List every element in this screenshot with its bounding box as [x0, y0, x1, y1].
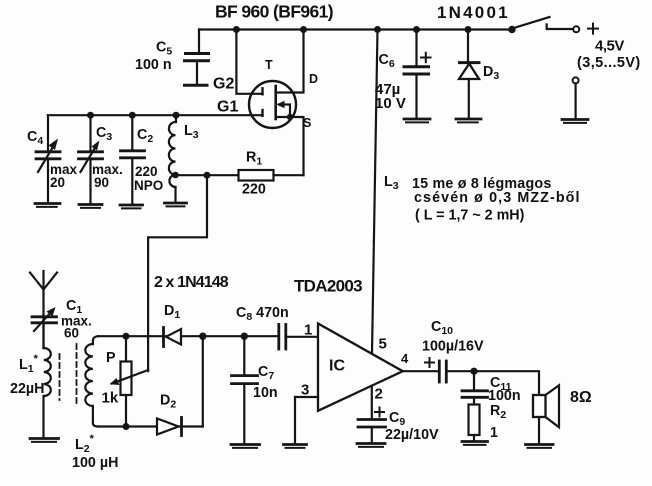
svg-text:20: 20	[50, 175, 65, 190]
svg-text:4: 4	[401, 351, 409, 366]
svg-text:220: 220	[242, 182, 266, 198]
svg-text:60: 60	[64, 326, 79, 341]
svg-text:10 V: 10 V	[375, 95, 406, 112]
svg-text:1N4001: 1N4001	[437, 3, 510, 22]
svg-text:IC: IC	[329, 358, 345, 375]
svg-text:220: 220	[135, 164, 158, 179]
svg-text:100n: 100n	[488, 388, 521, 404]
svg-text:100 n: 100 n	[135, 57, 172, 73]
svg-text:G1: G1	[217, 99, 238, 116]
svg-text:100 µH: 100 µH	[72, 455, 118, 471]
svg-text:BF 960 (BF961): BF 960 (BF961)	[215, 2, 333, 22]
svg-text:G2: G2	[213, 76, 234, 93]
svg-text:C8 470n: C8 470n	[236, 305, 289, 323]
svg-text:3: 3	[301, 382, 309, 399]
svg-text:4,5V: 4,5V	[595, 38, 624, 55]
svg-text:22µH: 22µH	[10, 381, 44, 397]
svg-text:S: S	[303, 116, 311, 130]
svg-text:100µ/16V: 100µ/16V	[422, 339, 484, 355]
svg-text:D: D	[309, 72, 318, 86]
svg-text:1: 1	[304, 322, 312, 339]
svg-text:(3,5...5V): (3,5...5V)	[577, 55, 641, 71]
svg-text:1: 1	[490, 425, 498, 441]
svg-text:90: 90	[94, 175, 109, 190]
svg-text:NPO: NPO	[134, 178, 163, 193]
svg-text:TDA2003: TDA2003	[294, 277, 362, 296]
svg-text:P: P	[106, 350, 116, 366]
svg-text:csévén ø 0,3 MZZ-ből: csévén ø 0,3 MZZ-ből	[414, 190, 581, 206]
svg-text:22µ/10V: 22µ/10V	[385, 427, 439, 443]
svg-text:2: 2	[375, 386, 383, 403]
svg-text:2 x 1N4148: 2 x 1N4148	[154, 274, 229, 291]
svg-text:8Ω: 8Ω	[570, 389, 592, 406]
svg-text:10n: 10n	[253, 385, 278, 401]
svg-text:( L = 1,7 ~ 2 mH): ( L = 1,7 ~ 2 mH)	[415, 208, 525, 224]
svg-text:5: 5	[379, 336, 387, 353]
svg-text:1k: 1k	[102, 390, 119, 407]
svg-text:T: T	[265, 58, 273, 72]
